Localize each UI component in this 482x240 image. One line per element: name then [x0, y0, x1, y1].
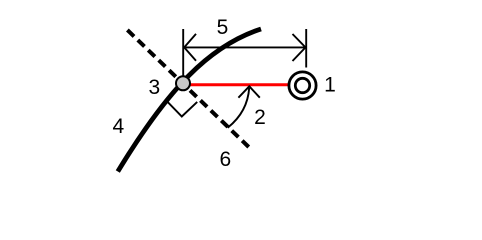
svg-text:5: 5 [217, 16, 229, 39]
angle arc 2 [228, 88, 250, 128]
right-angle marker [166, 100, 197, 116]
target point 1 inner circle [295, 78, 309, 92]
svg-text:6: 6 [219, 148, 231, 171]
extension line left (from point 3) [182, 29, 184, 76]
svg-text:3: 3 [149, 76, 161, 99]
dimension arrowhead right [293, 34, 306, 61]
svg-text:2: 2 [254, 106, 266, 129]
angle arc arrowhead [238, 86, 259, 97]
node 3 (gray point) [176, 76, 190, 90]
extension line right (from point 1) [305, 29, 307, 68]
dashed line 6 [127, 30, 248, 147]
red offset line (point 3 to point 1) [186, 83, 292, 86]
curved line 4 (thick arc) [118, 29, 261, 172]
dimension arrowhead left [184, 34, 196, 61]
svg-text:1: 1 [324, 73, 336, 96]
target point 1 outer circle [289, 72, 316, 99]
dimension line 5 [184, 46, 305, 48]
svg-text:4: 4 [112, 115, 124, 138]
